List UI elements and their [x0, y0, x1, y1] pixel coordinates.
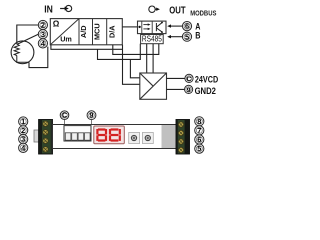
terminal circle 6	[182, 22, 191, 31]
power connector	[64, 126, 91, 141]
svg-text:B: B	[195, 30, 200, 41]
svg-text:IN: IN	[44, 5, 53, 16]
opto transistor	[156, 22, 162, 32]
terminal circle 2	[38, 20, 47, 29]
svg-text:3: 3	[21, 135, 25, 144]
DC/DC converter	[140, 73, 167, 99]
pin circle 5	[195, 144, 204, 153]
svg-text:5: 5	[185, 32, 189, 41]
svg-text:Um: Um	[60, 34, 72, 43]
svg-text:24VCD: 24VCD	[195, 75, 219, 85]
pin circle 7	[195, 126, 204, 135]
svg-text:GND2: GND2	[195, 86, 216, 96]
leader line C	[64, 120, 66, 125]
pin circle 2	[19, 126, 28, 135]
svg-text:A/D: A/D	[79, 25, 88, 38]
wire RS485 to DC/DC top 1	[146, 44, 148, 73]
svg-text:3: 3	[41, 30, 45, 39]
wire continuation inside DC/DC	[141, 83, 153, 85]
svg-text:8: 8	[197, 117, 201, 126]
input cell diagonal	[50, 19, 79, 45]
power wire H2 to RS485 inner	[98, 44, 141, 60]
sensor resistive element zigzag	[14, 44, 19, 56]
label circle 9	[87, 111, 96, 120]
svg-text:1: 1	[21, 117, 25, 126]
svg-text:MCU: MCU	[93, 23, 102, 40]
7-segment display	[94, 126, 125, 144]
sensor bottom lead	[17, 56, 29, 63]
module body	[53, 125, 177, 149]
power wire H1 block to RS485 outer	[113, 44, 159, 55]
wire RS485 to DC/DC top 2	[152, 44, 154, 73]
output symbol circle with arrow out	[149, 6, 157, 12]
arrow to terminal 6	[171, 25, 182, 27]
svg-text:RS485: RS485	[142, 35, 162, 44]
label circle C	[60, 111, 69, 120]
power wire H0 from block bottom-left	[51, 45, 123, 50]
terminal circle 3	[38, 30, 47, 39]
arrow to terminal 5	[171, 36, 182, 38]
wire D/A to RS485	[122, 26, 137, 28]
left terminal block	[39, 120, 53, 155]
wire terminal3 to sensor	[17, 34, 38, 44]
left screws	[43, 121, 48, 152]
opto LED arrows	[143, 25, 148, 29]
digit 8 left	[96, 128, 107, 141]
svg-text:C: C	[62, 113, 67, 120]
wire H2 branch down to DC/DC upper-left	[130, 59, 139, 77]
DIN rail tab	[34, 130, 39, 142]
opto cell divider right	[151, 21, 153, 33]
cell divider MCU	[92, 19, 94, 45]
wire terminal2 to sensor	[17, 25, 39, 44]
svg-text:D/A: D/A	[108, 25, 117, 38]
svg-text:6: 6	[197, 135, 201, 144]
svg-text:Ω: Ω	[53, 19, 60, 28]
svg-text:9: 9	[187, 87, 191, 94]
right screws	[178, 122, 183, 153]
terminal circle 5	[182, 32, 191, 41]
power wire block corner down to DC/DC lower-left	[123, 45, 140, 85]
terminal circle 9	[185, 85, 193, 94]
body end shade	[162, 125, 177, 148]
cell divider D/A	[106, 19, 108, 45]
input symbol arrow into circle	[60, 5, 72, 11]
digit 8 right	[109, 128, 121, 141]
leader line 9	[91, 120, 93, 125]
main module block	[50, 19, 122, 45]
svg-text:9: 9	[90, 113, 94, 120]
RTD sensor circle	[11, 41, 34, 64]
terminal circle 4	[38, 39, 47, 48]
wire DC/DC to 24V terminal	[167, 77, 185, 79]
button 2	[142, 133, 153, 144]
junction dot	[138, 26, 140, 28]
button 1	[129, 133, 140, 144]
svg-text:MODBUS: MODBUS	[190, 10, 216, 17]
pin circle 3	[19, 135, 28, 144]
svg-text:2: 2	[41, 21, 45, 30]
opto cell divider left	[141, 21, 143, 33]
pin circle 8	[195, 117, 204, 126]
RS485 isolator box	[138, 21, 167, 33]
RS485 label box	[141, 35, 164, 44]
svg-text:6: 6	[185, 22, 189, 31]
wire DC/DC to GND2 terminal	[167, 88, 185, 90]
svg-text:C: C	[187, 76, 192, 83]
svg-text:OUT: OUT	[169, 6, 186, 17]
cell divider A/D	[78, 19, 80, 45]
svg-text:5: 5	[197, 144, 201, 153]
pin circle 1	[19, 117, 28, 126]
svg-text:7: 7	[197, 126, 201, 135]
svg-text:2: 2	[21, 126, 25, 135]
pin circle 4	[19, 143, 28, 152]
terminal circle C	[185, 74, 193, 83]
wire sensor to terminal4	[29, 47, 48, 68]
right terminal block	[176, 120, 190, 155]
pin circle 6	[195, 135, 204, 144]
